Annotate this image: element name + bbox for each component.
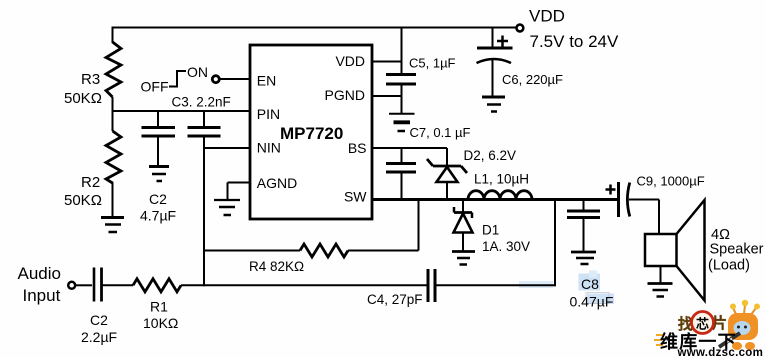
svg-text:R2: R2	[81, 174, 100, 191]
capacitor C7 0.1uF	[386, 148, 416, 199]
resistor R3	[106, 27, 121, 113]
label 7.5V to 24V	[530, 32, 620, 51]
capacitor C5 1uF	[386, 27, 416, 114]
label C6 220uF	[502, 72, 563, 87]
svg-text:1A. 30V: 1A. 30V	[482, 239, 530, 254]
svg-text:Input: Input	[23, 286, 61, 305]
pin PIN	[257, 106, 280, 122]
svg-text:PIN: PIN	[257, 106, 280, 122]
pin NIN	[257, 140, 281, 156]
svg-text:R1: R1	[150, 299, 168, 315]
label C9 1000uF	[637, 174, 705, 189]
svg-text:D2, 6.2V: D2, 6.2V	[464, 148, 517, 163]
watermark logo 找芯片	[678, 312, 727, 334]
svg-text:ON: ON	[187, 64, 208, 80]
svg-text:VDD: VDD	[529, 7, 565, 26]
svg-text:PGND: PGND	[325, 87, 365, 103]
label R4 82KΩ	[249, 259, 304, 274]
label C4 27pF	[367, 292, 423, 307]
op-amp U1 MP7720 box	[250, 45, 372, 219]
svg-text:R4 82KΩ: R4 82KΩ	[249, 259, 304, 274]
svg-text:www.dzsc.com: www.dzsc.com	[677, 347, 764, 358]
label R3 50KΩ	[64, 71, 102, 107]
svg-text:4.7µF: 4.7µF	[140, 208, 176, 224]
pin SW	[344, 188, 367, 204]
svg-text:VDD: VDD	[335, 53, 365, 69]
wire NIN pin	[204, 147, 250, 149]
svg-text:C7, 0.1 µF: C7, 0.1 µF	[410, 125, 471, 140]
svg-text:2.2µF: 2.2µF	[81, 329, 117, 345]
ground speaker	[648, 266, 673, 297]
wire NIN node vertical	[203, 136, 205, 286]
svg-text:NIN: NIN	[257, 140, 281, 156]
label ON	[187, 64, 208, 80]
ground D1	[452, 252, 475, 265]
svg-text:SW: SW	[344, 188, 367, 204]
wire VDD pin	[372, 61, 402, 63]
svg-text:OFF: OFF	[141, 79, 169, 95]
label C8	[581, 276, 599, 292]
wire top rail	[113, 27, 516, 29]
resistor R2	[106, 111, 121, 217]
pin PGND	[325, 87, 365, 103]
label L1 10uH	[474, 172, 529, 187]
wire EN pin	[220, 78, 250, 80]
svg-text:C3. 2.2nF: C3. 2.2nF	[172, 95, 231, 110]
svg-text:BS: BS	[348, 140, 367, 156]
speaker	[645, 200, 705, 301]
ground C6	[482, 97, 505, 112]
resistor R1	[133, 279, 204, 292]
svg-text:(Load): (Load)	[708, 258, 750, 274]
diode D2 zener	[427, 148, 467, 199]
label VDD supply	[529, 7, 565, 26]
svg-text:C9, 1000µF: C9, 1000µF	[637, 174, 705, 189]
svg-text:D1: D1	[482, 223, 499, 238]
label C5 1uF	[409, 56, 456, 71]
svg-text:MP7720: MP7720	[280, 124, 343, 143]
capacitor C2 input 2.2uF	[76, 268, 133, 302]
switch ON/OFF	[169, 71, 186, 88]
svg-text:C2: C2	[149, 191, 167, 207]
ground AGND	[214, 183, 250, 216]
svg-text:C6, 220µF: C6, 220µF	[502, 72, 563, 87]
ground R2	[101, 218, 124, 233]
capacitor C2 4.7uF	[142, 111, 176, 165]
svg-text:L1, 10µH: L1, 10µH	[474, 172, 529, 187]
svg-text:AGND: AGND	[257, 175, 297, 191]
svg-text:R3: R3	[81, 71, 100, 88]
label MP7720	[280, 124, 343, 143]
ground C8	[571, 252, 596, 264]
label C7 0.1uF	[410, 125, 471, 140]
label C2 4.7uF	[140, 191, 176, 224]
pin VDD	[335, 53, 365, 69]
svg-text:C4, 27pF: C4, 27pF	[367, 292, 423, 307]
label R1 10KΩ	[143, 299, 178, 332]
label C2 2.2uF	[81, 312, 117, 345]
pin EN	[257, 73, 276, 89]
svg-text:EN: EN	[257, 73, 276, 89]
wire SW rail	[372, 198, 618, 201]
wire PGND pin	[372, 95, 402, 97]
label D1	[482, 223, 499, 238]
capacitor C4 27pF	[428, 199, 555, 302]
terminal EN circle	[212, 76, 219, 83]
capacitor C6 220uF	[477, 27, 513, 97]
watermark mascot	[719, 300, 760, 350]
wire PIN rail	[112, 110, 251, 112]
svg-text:10KΩ: 10KΩ	[143, 315, 178, 331]
svg-text:芯: 芯	[696, 317, 709, 332]
resistor R4	[204, 200, 419, 257]
capacitor C8 0.47uF	[567, 199, 600, 251]
svg-text:7.5V to 24V: 7.5V to 24V	[530, 32, 620, 51]
diode D1	[454, 199, 473, 251]
highlight C8 label	[519, 271, 614, 305]
label OFF	[141, 79, 169, 95]
label C3 2.2nF	[172, 95, 231, 110]
label 1A 30V	[482, 239, 530, 254]
capacitor C3 2.2nF	[188, 111, 221, 136]
label D2 6.2V	[464, 148, 517, 163]
terminal VDD supply	[517, 25, 524, 32]
ground C5	[389, 114, 415, 131]
terminal audio input	[68, 282, 75, 289]
wire BS pin	[372, 147, 447, 149]
svg-text:Speaker: Speaker	[710, 242, 764, 258]
svg-text:50KΩ: 50KΩ	[64, 192, 102, 209]
svg-text:C8: C8	[581, 276, 599, 292]
capacitor C9 1000uF	[606, 182, 660, 217]
wire bottom rail	[204, 284, 427, 286]
svg-text:C5, 1µF: C5, 1µF	[409, 56, 456, 71]
label 4Ω Speaker Load	[708, 227, 764, 274]
svg-text:0.47µF: 0.47µF	[570, 294, 614, 310]
inductor L1	[468, 191, 532, 200]
label Audio Input	[18, 264, 61, 305]
svg-text:C2: C2	[90, 312, 108, 328]
watermark 维库一下	[654, 331, 737, 352]
svg-text:50KΩ: 50KΩ	[64, 90, 102, 107]
ground C2	[149, 167, 169, 182]
pin BS	[348, 140, 367, 156]
svg-text:Audio: Audio	[18, 264, 61, 283]
pin AGND	[257, 175, 297, 191]
label R2 50KΩ	[64, 174, 102, 209]
label 0.47uF	[570, 294, 614, 310]
